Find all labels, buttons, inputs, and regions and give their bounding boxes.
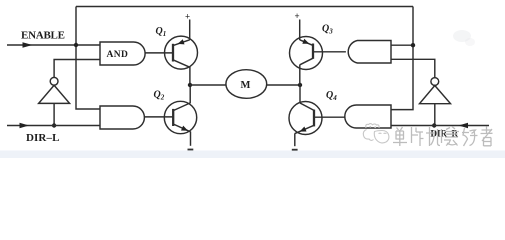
node motor right junction xyxy=(298,83,302,87)
wire Q1 emitter to plus xyxy=(189,20,191,41)
char hao xyxy=(462,128,478,146)
char dan xyxy=(393,127,407,146)
transistor Q1 emitter diagonal xyxy=(173,40,190,46)
inverter U3 (left) triangle xyxy=(39,85,70,103)
svg-text:AND: AND xyxy=(107,50,129,60)
transistor Q4 emitter diagonal xyxy=(295,125,314,133)
AND gate U2 (bottom-left) xyxy=(100,106,144,129)
wire motor left xyxy=(190,84,226,86)
AND gate U4 (top-right, mirrored) xyxy=(348,41,391,64)
transistor Q3 collector diagonal xyxy=(300,58,313,65)
bottom page strip xyxy=(0,151,505,159)
transistor Q1 emitter arrow xyxy=(178,39,185,44)
transistor Q3 circle xyxy=(290,37,323,70)
label minus Q4 xyxy=(292,149,298,151)
motor M ellipse xyxy=(226,70,267,99)
svg-text:ENABLE: ENABLE xyxy=(21,29,65,41)
faint smudge top right xyxy=(453,30,471,42)
svg-text:Q3: Q3 xyxy=(322,24,333,36)
wire U4 lower input from inverter U5 xyxy=(391,59,435,77)
wire ENABLE input xyxy=(7,44,100,46)
transistor Q1 base bar xyxy=(172,44,174,62)
wire DIR-R input xyxy=(391,125,489,127)
arrowhead ENABLE xyxy=(23,42,33,47)
wire right enable vertical xyxy=(391,7,413,110)
wire Q2 emitter to minus xyxy=(190,132,192,146)
wire U2 output to Q2 base xyxy=(145,116,174,118)
svg-text:DIR–L: DIR–L xyxy=(26,132,60,144)
node ENABLE junction xyxy=(74,43,78,47)
svg-text:Q2: Q2 xyxy=(154,90,165,102)
node DIR-R junction xyxy=(432,123,436,127)
svg-text:Q4: Q4 xyxy=(326,90,337,102)
wire Q2 collector up xyxy=(189,85,191,103)
transistor Q1 circle xyxy=(165,36,198,69)
char pian xyxy=(412,127,424,146)
char ai xyxy=(444,127,459,146)
svg-text:Q1: Q1 xyxy=(156,26,167,38)
transistor Q3 emitter diagonal xyxy=(300,40,313,46)
transistor Q4 emitter arrow xyxy=(300,127,307,132)
wire U4 top input xyxy=(391,44,413,46)
transistor Q2 emitter diagonal xyxy=(173,124,190,132)
wire Q4 emitter to minus xyxy=(294,133,296,146)
label minus Q2 xyxy=(188,149,194,151)
node right enable junction xyxy=(411,43,415,47)
wire Q1 collector down xyxy=(189,67,191,85)
transistor Q3 base bar xyxy=(312,44,314,59)
transistor Q4 base bar xyxy=(313,110,315,127)
wire DIR-L input xyxy=(7,125,100,127)
wire top rail xyxy=(76,6,413,8)
wire U3 output to U1 lower input xyxy=(54,60,100,78)
svg-text:+: + xyxy=(185,12,190,22)
transistor Q2 circle xyxy=(164,101,196,133)
wire U5 input from DIR-R xyxy=(434,104,436,126)
wire Q3 collector down xyxy=(299,65,301,85)
wire motor right xyxy=(267,84,300,86)
wire U1 output to Q1 base xyxy=(145,52,173,54)
wire U6 output to Q4 base xyxy=(314,116,345,118)
arrowhead DIR-R xyxy=(459,123,469,128)
inverter U3 bubble xyxy=(50,77,58,85)
char ji xyxy=(426,127,442,146)
wire Q4 collector up xyxy=(299,85,301,103)
watermark text 单片机爱好者 (drawn strokes) xyxy=(393,127,493,147)
svg-text:+: + xyxy=(295,11,300,21)
transistor Q2 base bar xyxy=(172,109,174,126)
transistor Q4 collector diagonal xyxy=(300,103,314,110)
transistor Q4 circle xyxy=(289,102,322,135)
wire Q3 emitter to plus xyxy=(299,20,301,41)
char zhe xyxy=(481,127,493,147)
wire left enable vertical xyxy=(76,7,100,110)
AND gate U6 (bottom-right, mirrored) xyxy=(345,105,391,128)
wire U3 input from DIR-L xyxy=(53,103,55,125)
arrowhead DIR-L xyxy=(20,123,30,128)
transistor Q2 emitter arrow xyxy=(181,126,188,131)
inverter U5 (right) bubble xyxy=(431,78,439,86)
svg-text:M: M xyxy=(241,80,251,91)
inverter U5 triangle xyxy=(420,86,451,104)
transistor Q3 emitter arrow xyxy=(302,39,309,44)
watermark logo icon xyxy=(363,124,389,143)
transistor Q1 collector diagonal xyxy=(173,60,190,67)
transistor Q2 collector diagonal xyxy=(173,103,190,111)
AND gate U1 (top-left) xyxy=(100,42,145,65)
node DIR-L junction xyxy=(52,123,56,127)
node motor left junction xyxy=(188,83,192,87)
wire U4 output to Q3 base xyxy=(313,51,346,53)
